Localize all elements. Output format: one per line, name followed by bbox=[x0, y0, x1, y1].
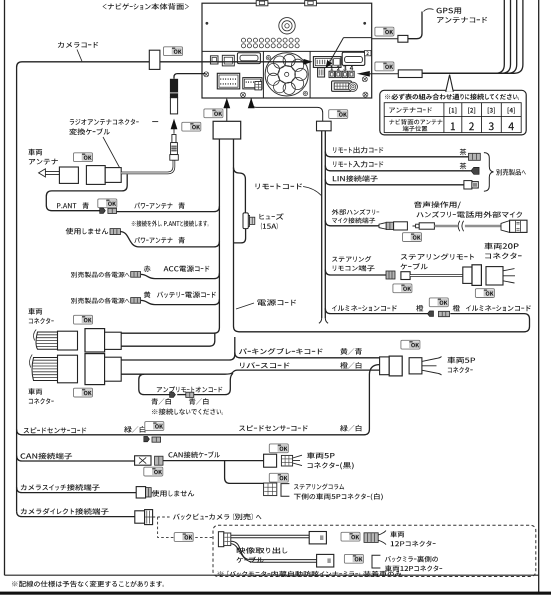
label blue/white 1 bbox=[151, 398, 171, 404]
connector steering cable end part2 bbox=[472, 265, 481, 286]
label steering column under 5P white bbox=[294, 484, 344, 490]
note back monitor auto-dimming inner mirror only bbox=[218, 571, 403, 577]
nav unit top tab right bbox=[305, 1, 317, 6]
connector video lower bracket bbox=[372, 555, 380, 568]
connector pair amp remote 1 bbox=[170, 392, 176, 397]
wire power antenna row1 to trunk bbox=[117, 206, 220, 211]
label green/white right bbox=[340, 425, 361, 432]
connector 5P adapter box1 bbox=[380, 357, 390, 375]
connector camera switch bbox=[136, 487, 145, 498]
OK badge bbox=[403, 233, 422, 242]
OK badge bbox=[144, 467, 163, 476]
vehicle harness plug top (ribbed) bbox=[34, 330, 58, 350]
label to optional products bbox=[496, 169, 526, 176]
nav unit screw upper-left of 24P bbox=[204, 72, 209, 77]
connector remote output bbox=[469, 153, 481, 160]
wire vehicle top 1 to trunk bbox=[120, 332, 122, 334]
OK badge bbox=[329, 110, 348, 119]
radio antenna socket plug black below unit bbox=[170, 79, 178, 98]
nav unit fan screw top-left bbox=[266, 56, 270, 60]
nav unit center grid connector bbox=[332, 81, 352, 91]
nav unit connector CN-A (small usb) bbox=[210, 56, 218, 64]
label navigation-unit rear title bbox=[103, 3, 189, 10]
label radio antenna connector conversion cable bbox=[70, 119, 139, 125]
nav unit connector CN-B bbox=[222, 55, 234, 66]
connector vehicle top box A bbox=[58, 331, 78, 350]
connector CAN terminal bbox=[135, 456, 151, 465]
label voice operation bbox=[414, 201, 461, 208]
label orange 1 bbox=[416, 305, 423, 312]
nav unit screw dot right bbox=[363, 22, 366, 25]
nav unit concentric circle emboss bbox=[279, 18, 295, 34]
connector steering terminal stripe bbox=[386, 271, 395, 279]
arrowhead pointing right at antenna block bbox=[304, 59, 313, 65]
connector pair P.ANT bbox=[100, 208, 106, 214]
nav unit screw dot left bbox=[206, 22, 209, 25]
wire fuse branch from trunk bbox=[234, 168, 246, 213]
label camera direct terminal bbox=[21, 508, 109, 515]
label fuse 15A bbox=[260, 213, 284, 219]
label steering remote-control terminal bbox=[332, 256, 371, 262]
antenna table callout box bbox=[380, 90, 526, 135]
wire vehicle top 2 to trunk riser bbox=[121, 333, 215, 346]
connector vehicle 20P box bbox=[486, 267, 503, 285]
antenna jack assembly pointing up bbox=[172, 135, 176, 143]
wire GPS horizontal over unit bbox=[344, 37, 372, 39]
label hands-free phone external mic bbox=[417, 211, 523, 218]
label camera switch terminal bbox=[21, 484, 100, 491]
page right border line bbox=[538, 0, 540, 592]
connector vehicle bottom box C bbox=[105, 357, 122, 381]
connector vehicle 5P box bbox=[409, 358, 422, 374]
label brown 2 bbox=[460, 163, 467, 170]
connector remote cord box bbox=[317, 121, 332, 131]
nav unit 24P main connector bbox=[217, 73, 239, 89]
arrow up antenna jack to unit plug bbox=[173, 129, 175, 134]
OK badge bbox=[344, 554, 363, 563]
OK badge bbox=[182, 122, 201, 131]
label red ACC power cord bbox=[144, 265, 151, 272]
connector stripe ACC bbox=[131, 272, 141, 278]
label vehicle 5P connector bbox=[447, 357, 475, 364]
connector pair speed sensor bbox=[144, 436, 150, 441]
label remote input cord bbox=[333, 161, 383, 168]
footer separator line bbox=[5, 574, 539, 576]
label steering remote cable bbox=[401, 253, 474, 260]
note do not connect bbox=[152, 409, 223, 415]
dash mark near label bbox=[152, 121, 158, 123]
label speed sensor cord left bbox=[24, 427, 87, 433]
label CAN connection cable bbox=[168, 451, 219, 458]
wire illumination from remote trunk bbox=[325, 308, 427, 313]
connector not-used stripe bbox=[110, 229, 120, 235]
nav unit screw bottom-right bbox=[363, 92, 368, 97]
leader line remote cord bbox=[303, 187, 321, 196]
connector 5P adapter box2 bbox=[389, 356, 402, 376]
label LIN connection terminal bbox=[333, 175, 378, 182]
OK badge bbox=[375, 27, 394, 36]
callout pointer triangle bbox=[446, 75, 453, 91]
label to each power of optional products row1 bbox=[71, 272, 130, 278]
mic cable with break bbox=[434, 225, 501, 227]
label to back view camera (sold separately) bbox=[173, 513, 261, 520]
connector camera direct bbox=[135, 511, 145, 523]
connector GPS cord plug bbox=[398, 35, 408, 42]
note disconnect and connect to P.ANT bbox=[132, 220, 209, 226]
OK badge bbox=[74, 315, 93, 324]
page bottom bar bbox=[0, 592, 551, 595]
video upper fork bbox=[378, 531, 386, 545]
wire power antenna row2 to trunk bbox=[120, 232, 219, 247]
label external hands-free mic terminal bbox=[332, 209, 380, 215]
wire vehicle bottom 1 (to parking area) bbox=[121, 337, 235, 360]
label vehicle antenna bbox=[28, 149, 42, 156]
connector antenna cords 4P plug bbox=[398, 70, 422, 78]
footer note text bbox=[12, 581, 164, 588]
label speed sensor cord right bbox=[239, 425, 308, 431]
label illumination cord left bbox=[332, 305, 397, 311]
dashed wire camera direct to video cable bbox=[153, 517, 213, 537]
connector stripe battery bbox=[131, 298, 141, 304]
nav unit usb-wide connector right bbox=[342, 52, 365, 65]
wire mic terminal bbox=[325, 220, 379, 225]
connector mic jack socket bbox=[379, 223, 386, 230]
connector LIN terminal bbox=[464, 181, 472, 189]
nav unit antenna block connector bbox=[313, 57, 341, 68]
connector video upper box bbox=[309, 532, 326, 544]
brace to optional products bbox=[484, 153, 494, 192]
OK badge bbox=[145, 422, 164, 431]
wire remote output cord bbox=[325, 151, 468, 156]
wire power trunk left line bbox=[121, 139, 219, 333]
table bracket numbers bbox=[449, 108, 456, 114]
label vehicle 20P connector bbox=[484, 243, 518, 250]
label remote cord bbox=[256, 183, 303, 189]
connector vehicle bottom box B bbox=[85, 354, 105, 385]
OK badge bbox=[74, 153, 93, 162]
wire camera switch from trunk bbox=[17, 487, 137, 492]
wire speed sensor riser from adapter bbox=[17, 365, 380, 435]
nav unit 20P sub connector bbox=[243, 78, 262, 89]
connector steering cable plug bbox=[401, 272, 410, 280]
label amp remote-on cord bbox=[157, 386, 223, 392]
table heading text bbox=[385, 94, 519, 100]
wire LIN terminal bbox=[325, 179, 464, 184]
connector CAN row1 white bbox=[264, 454, 277, 467]
wire battery to trunk bbox=[141, 299, 220, 304]
OK badge bbox=[401, 340, 420, 349]
connector vehicle top box C bbox=[105, 332, 122, 349]
label blue/white 2 bbox=[189, 398, 209, 404]
nav unit round connector bbox=[348, 82, 357, 91]
OK badge bbox=[269, 444, 288, 453]
label not used bbox=[66, 228, 109, 235]
label camera cord bbox=[58, 42, 98, 48]
external microphone body bbox=[501, 221, 510, 233]
nav unit fan enclosure bbox=[263, 51, 310, 98]
wire ACC to trunk bbox=[141, 273, 220, 278]
vehicle harness plug bottom (ribbed) bbox=[30, 355, 58, 381]
connector video cable input bbox=[218, 532, 223, 547]
label video output cable bbox=[237, 547, 288, 553]
connector radio antenna box1 bbox=[59, 167, 78, 183]
wire GPS terminal leader with arrowhead bbox=[330, 38, 398, 62]
wire P.ANT loop from coax bbox=[46, 174, 127, 211]
label reverse cord bbox=[240, 362, 289, 368]
OK badge bbox=[269, 473, 288, 482]
connector camera cord plug bbox=[149, 50, 160, 69]
wire CAN cable with Y split bbox=[163, 460, 264, 462]
nav unit screw bottom-center bbox=[241, 92, 246, 97]
nav unit fan screw bottom-right bbox=[303, 91, 307, 95]
connector video upper plug bbox=[364, 533, 378, 543]
connector pair amp remote 2 bbox=[186, 392, 194, 397]
nav unit screw right-mid bbox=[362, 77, 367, 82]
dashed box video out section bbox=[213, 525, 536, 576]
vehicle 5P fork lines bbox=[422, 359, 437, 374]
vehicle 20P fork lines bbox=[503, 269, 515, 283]
OK badge bbox=[375, 62, 394, 71]
wire camera cord trunk down left side bbox=[17, 62, 150, 511]
connector pair illumination bbox=[428, 311, 434, 317]
nav unit lower panel divider bbox=[202, 50, 372, 52]
wire CAN terminal from trunk bbox=[17, 456, 135, 461]
connector video lower box bbox=[317, 554, 334, 567]
label brown 1 bbox=[460, 149, 467, 156]
leader line camera cord label bbox=[77, 50, 82, 62]
label illumination cord right bbox=[466, 305, 531, 311]
nav unit top tab left bbox=[256, 1, 268, 6]
label P.ANT blue bbox=[57, 203, 76, 208]
label yellow battery power cord bbox=[144, 291, 151, 298]
leader line power cord label bbox=[236, 303, 254, 309]
connector vehicle top box B bbox=[85, 329, 105, 352]
OK badge bbox=[174, 533, 193, 542]
nav unit vent hole rows bbox=[241, 38, 299, 48]
label vehicle connector bottom bbox=[28, 388, 42, 395]
connector remote input bbox=[471, 167, 479, 174]
label parking brake cord bbox=[239, 348, 323, 355]
wire parking brake cord bbox=[235, 352, 380, 357]
OK badge bbox=[475, 289, 494, 298]
label CAN connection terminal bbox=[21, 453, 73, 460]
wire GPS antenna cord bbox=[408, 12, 422, 39]
label green/white left bbox=[124, 426, 145, 433]
connector steering cable end part1 bbox=[463, 267, 472, 283]
CAN row1 fork bbox=[293, 455, 302, 465]
wire remote trunk left line bbox=[321, 131, 323, 318]
wire remote trunk right line bbox=[324, 131, 326, 318]
label power antenna blue row1 bbox=[134, 203, 172, 209]
connector CAN row2 grid bbox=[264, 483, 277, 496]
table row2 label bbox=[389, 119, 442, 125]
nav unit tag 2 bbox=[365, 50, 371, 55]
connector radio antenna converter box3 bbox=[105, 168, 121, 183]
wire steering terminal bbox=[325, 270, 386, 275]
wire amp remote-on cord bbox=[139, 374, 170, 394]
page left border line bbox=[4, 0, 6, 575]
wire camera cord to unit with left arrow into antenna block bbox=[160, 61, 304, 63]
wire remote input cord bbox=[325, 165, 471, 170]
vehicle antenna plug tip bbox=[39, 169, 46, 177]
OK badge bbox=[393, 284, 412, 293]
wire antenna plug to unit with left arrowhead bbox=[372, 73, 399, 75]
leader line radio antenna label bbox=[103, 137, 120, 168]
connector power cord box bbox=[213, 121, 241, 139]
label power cord bbox=[257, 299, 296, 306]
nav unit small grid connector bottom-left bbox=[255, 82, 262, 90]
OK badge bbox=[98, 199, 117, 208]
wire reverse cord bbox=[225, 370, 380, 374]
OK badge bbox=[429, 298, 448, 307]
nav unit connector CN-C (wide hdmi) bbox=[237, 53, 260, 64]
label not used 2 bbox=[152, 490, 195, 497]
label power antenna blue row2 bbox=[134, 237, 172, 243]
antenna terminals 1-4 bbox=[329, 71, 334, 77]
label vehicle 5P connector black bbox=[307, 452, 335, 459]
table terminal numbers bbox=[451, 122, 455, 130]
OK badge bbox=[341, 532, 360, 541]
wire vehicle bottom 2 (reverse cord) bbox=[121, 373, 225, 375]
OK badge bbox=[164, 47, 183, 56]
coax cable from converter to antenna jack bbox=[121, 160, 174, 173]
antenna cords x4 curving from top bbox=[422, 0, 504, 73]
OK badge bbox=[204, 109, 223, 118]
nav unit cooling fan bbox=[265, 53, 308, 96]
connector vehicle bottom box A bbox=[58, 355, 78, 383]
label remote output cord bbox=[333, 147, 383, 154]
fuse holder 15A bbox=[243, 213, 248, 229]
steering cable double line bbox=[410, 274, 463, 277]
CAN row2 bracket bbox=[281, 484, 289, 497]
wire power trunk right line bbox=[234, 139, 530, 332]
wire power connector to unit with up arrow bbox=[226, 104, 228, 121]
table grid bbox=[384, 103, 521, 133]
connector CAN row1 grid bbox=[281, 455, 292, 466]
table row1 label bbox=[389, 107, 432, 113]
wire camera direct from trunk bbox=[17, 511, 135, 516]
label vehicle connector top bbox=[28, 308, 42, 315]
connector radio antenna box2 bbox=[86, 166, 105, 185]
wire remote cord from unit with up arrow bbox=[251, 98, 323, 121]
connector mic plug bbox=[413, 225, 417, 227]
video cable upper branch bbox=[231, 535, 309, 538]
leader line GPS label bbox=[424, 9, 434, 12]
antenna terminal labels 1 2 3 4 bbox=[331, 66, 334, 71]
wire radio antenna socket into unit bbox=[174, 74, 205, 79]
label to each power of optional products row2 bbox=[71, 298, 130, 304]
video cable lower branch loop bbox=[231, 541, 317, 559]
nav unit body bbox=[202, 3, 372, 98]
label GPS antenna cord bbox=[437, 8, 462, 14]
nav unit GPS terminal bbox=[318, 68, 325, 77]
label back mirror rear 12P bbox=[385, 556, 438, 562]
label orange 2 bbox=[453, 305, 460, 312]
OK badge bbox=[74, 388, 93, 397]
label vehicle 12P connector upper bbox=[390, 531, 404, 537]
